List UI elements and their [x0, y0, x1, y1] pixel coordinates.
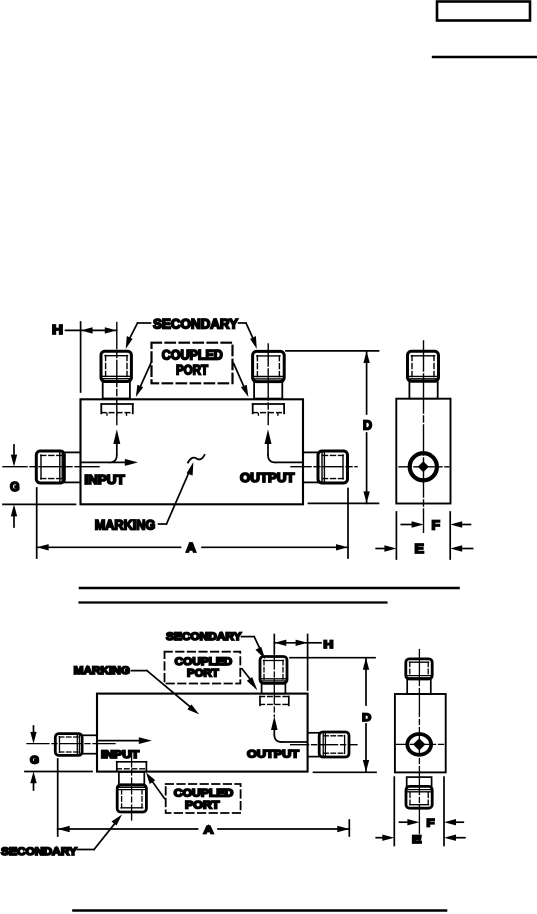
fig1 dim EF left extension line [395, 512, 397, 559]
fig1 dim A left extension line [36, 488, 38, 558]
fig2 side view bottom nut [406, 786, 432, 808]
svg-text:INPUT: INPUT [101, 749, 140, 761]
fig1 right connector centerline [291, 466, 357, 468]
fig1 dim F left arrow [401, 521, 423, 527]
fig1 dim E right arrow [450, 545, 472, 551]
fig1 side view center pin diamond [418, 461, 429, 472]
fig2 dim G bottom arrow [30, 772, 36, 791]
svg-text:SECONDARY: SECONDARY [1, 846, 78, 858]
svg-text:OUTPUT: OUTPUT [240, 471, 295, 485]
svg-text:E: E [412, 834, 422, 846]
fig1 dim G bottom arrow [11, 504, 17, 527]
fig1 dim G bottom extension line [3, 503, 76, 505]
fig1 dim F right arrow [450, 521, 470, 527]
svg-text:D: D [362, 712, 371, 724]
fig2 side view top nut [406, 659, 432, 679]
bottom rule [74, 909, 447, 912]
fig2 top connector barrel [262, 683, 286, 694]
mid rule 1 [80, 587, 459, 590]
fig1 left coupled flow arrow [109, 429, 120, 469]
fig2 dim G top arrow [30, 726, 36, 744]
fig2 body [97, 694, 308, 772]
fig1 right side connector barrel [303, 452, 318, 482]
fig1 body [81, 399, 304, 504]
fig2 coupled port top leader [242, 669, 257, 691]
svg-text:SECONDARY: SECONDARY [166, 631, 242, 643]
fig2 side view horizontal centerline [397, 743, 444, 745]
fig1 dim H left extension line [80, 322, 82, 392]
fig1 side view vertical centerline [423, 341, 425, 532]
fig2 coupled port bottom dashed box [166, 784, 241, 813]
fig1 left side connector barrel [64, 452, 80, 482]
svg-text:MARKING: MARKING [95, 517, 156, 532]
fig1 left side connector nut [36, 451, 64, 483]
fig1 dim D bottom extension line [309, 502, 379, 504]
svg-text:F: F [427, 818, 435, 830]
mid rule 2 [80, 601, 387, 603]
fig1 side view nut [408, 351, 439, 381]
fig2 left side connector barrel [82, 735, 97, 753]
fig1 top-right connector flange [253, 404, 284, 415]
fig1 coupled port dashed box [152, 343, 233, 384]
fig1 dim H line with arrows [81, 327, 117, 333]
svg-text:H: H [323, 639, 333, 651]
svg-text:OUTPUT: OUTPUT [247, 749, 299, 761]
fig2 side view bottom barrel [407, 777, 432, 786]
fig1 top-left connector barrel [103, 382, 130, 399]
fig2 dim H line with arrows [274, 640, 307, 646]
fig1 top-left connector flange [101, 404, 133, 415]
fig2 bottom connector nut [117, 785, 146, 812]
fig1 right side connector nut [318, 451, 348, 483]
fig2 coupled port bottom leader [146, 773, 165, 799]
fig1 coupled port left leader [136, 364, 151, 398]
fig1 side view body [396, 399, 450, 504]
fig1 secondary left leader [126, 323, 151, 349]
fig2 dim F left arrow [400, 819, 420, 825]
fig2 coupled port top dashed box [165, 652, 241, 684]
fig2 dim H left extension line [273, 635, 275, 654]
svg-text:A: A [186, 540, 197, 555]
fig1 right coupled flow arrow [265, 429, 304, 462]
fig1 top-left connector nut [101, 351, 131, 381]
fig2 dim D top extension line [290, 657, 375, 659]
fig2 bottom connector flange [117, 762, 147, 771]
fig2 secondary bottom leader [78, 815, 123, 850]
header rule top right [433, 56, 537, 58]
fig2 side view connector ring [407, 734, 431, 755]
fig2 dim F right arrow [444, 819, 463, 825]
fig1 dim D top extension line [286, 350, 379, 352]
fig2 bottom connector centerline [131, 751, 133, 820]
fig1 side view barrel [409, 381, 437, 398]
svg-text:H: H [52, 322, 63, 337]
svg-text:COUPLED: COUPLED [175, 656, 233, 668]
fig1 side view horizontal centerline [399, 466, 449, 468]
fig2 dim H leader [308, 642, 321, 644]
fig1 dim A right extension line [347, 489, 349, 559]
fig1 secondary right leader [239, 323, 257, 349]
fig1 top-left connector centerline [116, 323, 118, 425]
fig1 marking tilde [188, 455, 205, 463]
svg-text:COUPLED: COUPLED [174, 787, 234, 799]
fig2 dim D bottom extension line [314, 771, 377, 773]
fig1 top-right connector barrel [254, 382, 282, 399]
fig2 dim EF left extension line [393, 777, 395, 845]
fig2 top connector flange [260, 696, 289, 705]
fig1 dim E left arrow [376, 545, 396, 551]
fig2 dim H right extension line [307, 635, 309, 691]
fig2 bottom connector barrel [119, 772, 144, 785]
svg-text:INPUT: INPUT [84, 473, 125, 487]
fig1 coupled port right leader [234, 364, 249, 398]
fig2 dim A left extension line [57, 759, 59, 836]
svg-text:COUPLED: COUPLED [162, 348, 223, 363]
svg-text:SECONDARY: SECONDARY [153, 317, 238, 332]
svg-text:F: F [432, 518, 441, 533]
fig1 top-right connector centerline [267, 344, 269, 425]
fig2 dim EF right extension line [443, 777, 445, 845]
fig2 dim A right extension line [348, 820, 350, 836]
fig2 side view center pin diamond [413, 738, 425, 750]
svg-text:PORT: PORT [185, 800, 220, 812]
fig1 dim EF right extension line [449, 512, 451, 559]
fig1 dim G top arrow [11, 445, 17, 467]
svg-text:D: D [363, 418, 372, 433]
fig1 left connector centerline [3, 466, 100, 468]
svg-text:G: G [30, 755, 39, 767]
fig2 side view vertical centerline [418, 650, 420, 844]
fig1 marking leader [159, 462, 194, 524]
fig1 dim A line [37, 544, 348, 550]
fig2 dim G bottom extension line [25, 771, 92, 773]
svg-text:A: A [204, 825, 214, 837]
fig2 dim D line [363, 658, 369, 772]
fig2 dim A line [58, 826, 350, 832]
fig1 side view connector ring [410, 453, 437, 480]
fig2 side view body [395, 694, 446, 772]
fig1 top-right connector nut [253, 351, 285, 381]
svg-text:PORT: PORT [176, 363, 209, 378]
svg-text:G: G [10, 479, 20, 494]
fig2 output flow arrow [271, 716, 307, 742]
fig1 dim D line [363, 351, 369, 503]
fig1 input flow arrow [81, 459, 138, 466]
fig2 right connector centerline [291, 744, 357, 746]
fig2 right side connector barrel [308, 733, 320, 757]
svg-text:PORT: PORT [187, 667, 219, 679]
fig2 secondary top leader [242, 637, 266, 660]
fig2 marking leader [132, 671, 200, 715]
svg-text:MARKING: MARKING [74, 665, 130, 677]
fig2 left side connector nut [55, 734, 82, 756]
fig2 left connector centerline [27, 743, 116, 745]
svg-text:E: E [415, 541, 425, 556]
title block box top right [437, 2, 530, 21]
fig2 top connector nut [260, 657, 287, 684]
fig2 input flow arrow [98, 737, 152, 744]
fig2 dim E left arrow [376, 835, 394, 841]
fig2 side view top barrel [407, 679, 431, 694]
fig1 dim H leader [66, 329, 81, 331]
fig2 right side connector nut [319, 732, 349, 757]
fig2 dim E right arrow [444, 835, 465, 841]
fig2 top connector centerline [273, 645, 275, 717]
